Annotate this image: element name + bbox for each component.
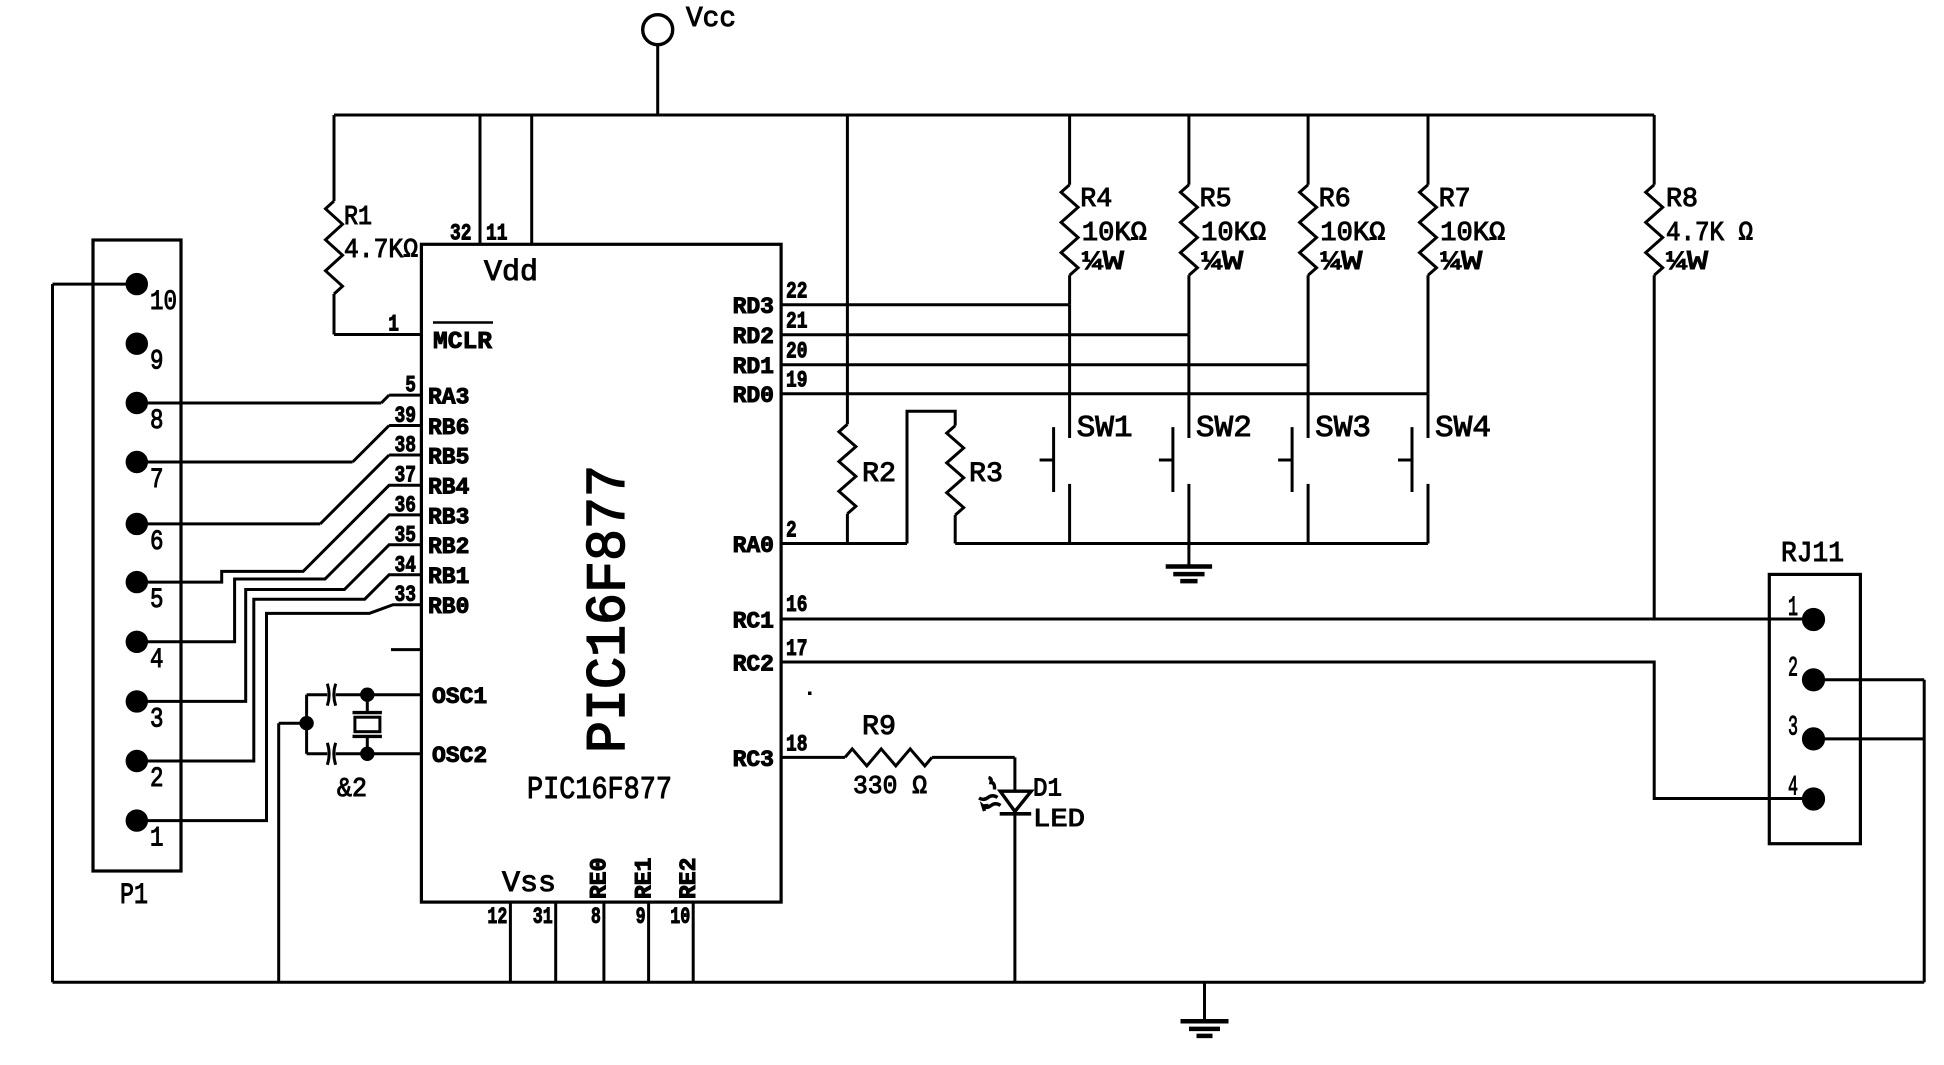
wire Vss pin 12 to ground rail xyxy=(509,902,512,982)
label R9 value 330 Ohm xyxy=(853,771,927,801)
svg-text:MCLR: MCLR xyxy=(433,329,493,356)
label PIC16F877 horizontal xyxy=(527,773,672,808)
label SW2 xyxy=(1196,411,1252,446)
wire RD3 net xyxy=(781,303,1070,306)
svg-text:R5: R5 xyxy=(1200,185,1232,215)
pin name RB4 xyxy=(428,474,470,500)
connector P1 pin 3 xyxy=(127,691,147,711)
pin number 22 xyxy=(786,279,808,305)
pin number 20 xyxy=(786,339,808,365)
pin name RE2 vertical xyxy=(676,858,702,899)
svg-text:Vss: Vss xyxy=(502,867,556,901)
switch SW4 contact bar xyxy=(1398,427,1412,492)
pin name RD3 xyxy=(733,294,774,320)
switch SW1 contact bar xyxy=(1040,427,1054,492)
svg-text:&2: &2 xyxy=(337,775,367,805)
svg-text:R1: R1 xyxy=(344,203,372,233)
connector P1 pin 6 xyxy=(127,514,147,534)
pin number P1 5 xyxy=(150,585,164,616)
label R9 xyxy=(862,712,896,743)
pin name RC3 xyxy=(733,747,774,773)
resistor R1 xyxy=(326,115,343,335)
wire RE0 pin 8 to ground rail xyxy=(602,902,605,982)
svg-text:20: 20 xyxy=(786,339,808,365)
connector P1 pin 2 xyxy=(127,751,147,771)
label R4 xyxy=(1080,185,1112,215)
svg-text:RC3: RC3 xyxy=(733,747,774,773)
stray dot xyxy=(808,692,812,696)
svg-text:Vcc: Vcc xyxy=(686,2,736,35)
label R5 xyxy=(1200,185,1232,215)
svg-text:¼W: ¼W xyxy=(1440,248,1483,278)
svg-text:OSC1: OSC1 xyxy=(432,684,487,710)
svg-text:2: 2 xyxy=(786,518,797,544)
wire RJ11 pin 2 to ground xyxy=(1823,680,1924,983)
label MCLR with overbar xyxy=(433,323,493,357)
label R3 xyxy=(969,459,1003,490)
pin number P1 4 xyxy=(150,645,164,676)
svg-text:18: 18 xyxy=(786,731,808,757)
power symbol Vcc xyxy=(643,15,673,115)
svg-text:¼W: ¼W xyxy=(1666,248,1709,278)
label P1 xyxy=(120,879,148,913)
connector P1 pin 8 xyxy=(127,393,147,413)
wire RA0 net left segment xyxy=(781,542,907,545)
pin name RD2 xyxy=(733,324,774,350)
wire MCLR net xyxy=(334,333,421,336)
connector P1 pin 5 xyxy=(127,572,147,592)
svg-text:SW4: SW4 xyxy=(1435,411,1491,446)
connector P1 pin 10 xyxy=(127,274,147,294)
svg-text:¼W: ¼W xyxy=(1201,248,1244,278)
svg-text:3: 3 xyxy=(150,704,164,735)
svg-text:PIC16F877: PIC16F877 xyxy=(527,773,672,808)
wire Vdd pin 11 xyxy=(530,115,533,244)
connector RJ11 pin 1 xyxy=(1803,609,1824,630)
svg-text:RD3: RD3 xyxy=(733,294,774,320)
pin name RE1 vertical xyxy=(631,858,657,899)
pin name RE0 vertical xyxy=(587,858,613,899)
pin number P1 1 xyxy=(150,824,164,855)
svg-text:RB5: RB5 xyxy=(428,444,469,470)
pin number RJ11 3 xyxy=(1788,713,1798,744)
capacitor C2 xyxy=(307,743,422,765)
connector RJ11 body xyxy=(1769,574,1860,843)
wire RJ11 pin 3 xyxy=(1823,737,1924,740)
svg-text:RE1: RE1 xyxy=(631,858,657,899)
label R7 xyxy=(1439,185,1471,215)
svg-text:RE2: RE2 xyxy=(676,858,702,899)
resistor R7 xyxy=(1420,115,1437,394)
resistor R2 xyxy=(839,115,856,544)
pin number 9 xyxy=(636,904,646,930)
label SW1 xyxy=(1077,411,1133,446)
pin name RB2 xyxy=(428,534,469,560)
svg-text:D1: D1 xyxy=(1033,774,1062,804)
pin name RB3 xyxy=(428,504,469,530)
pin number P1 3 xyxy=(150,704,164,735)
svg-text:22: 22 xyxy=(786,279,808,305)
resistor R5 xyxy=(1180,115,1197,335)
label LED xyxy=(1033,804,1085,834)
svg-text:7: 7 xyxy=(150,465,164,496)
pin name RB1 xyxy=(428,564,469,590)
pin number P1 10 xyxy=(150,287,177,318)
wire Vdd pin 32 xyxy=(479,115,482,244)
svg-text:10KΩ: 10KΩ xyxy=(1201,219,1266,249)
label SW4 xyxy=(1435,411,1491,446)
svg-text:1: 1 xyxy=(150,824,164,855)
label Vss xyxy=(502,867,556,901)
svg-text:RB2: RB2 xyxy=(428,534,469,560)
svg-text:RB1: RB1 xyxy=(428,564,469,590)
crystal Y1 xyxy=(353,695,382,754)
pin stub RB0 + wire from P1 pin 1 xyxy=(147,605,421,821)
svg-text:P1: P1 xyxy=(120,879,148,913)
connector P1 pin 4 xyxy=(127,632,147,652)
svg-text:RC2: RC2 xyxy=(733,651,774,677)
svg-text:R9: R9 xyxy=(862,712,896,743)
svg-text:2: 2 xyxy=(1788,653,1798,684)
pin number 33 xyxy=(395,582,417,608)
pin number 17 xyxy=(786,636,808,662)
svg-text:R4: R4 xyxy=(1080,185,1112,215)
svg-text:¼W: ¼W xyxy=(1082,248,1125,278)
pin stub RB2 + wire from P1 pin 3 xyxy=(147,545,421,702)
svg-text:4: 4 xyxy=(150,645,164,676)
svg-text:8: 8 xyxy=(150,406,164,437)
pin number 2 xyxy=(786,518,797,544)
pin number P1 9 xyxy=(150,347,164,378)
label SW3 xyxy=(1315,411,1371,446)
svg-text:4.7KΩ: 4.7KΩ xyxy=(344,236,418,266)
pin number 5 xyxy=(405,373,416,399)
pin stub RB3 + wire from P1 pin 4 xyxy=(147,515,421,642)
pin number 1 (MCLR) xyxy=(388,312,399,338)
junction dot osc xyxy=(299,716,313,730)
svg-text:R3: R3 xyxy=(969,459,1003,490)
svg-text:RJ11: RJ11 xyxy=(1781,537,1844,570)
connector P1 body xyxy=(93,240,181,871)
pin number 10 xyxy=(670,904,690,930)
svg-text:12: 12 xyxy=(487,904,507,930)
switch SW2 contact bar xyxy=(1159,427,1173,492)
connector RJ11 pin 3 xyxy=(1803,728,1824,749)
pin stub RA3 + wire from P1 pin 8 xyxy=(147,395,421,403)
svg-text:4.7K Ω: 4.7K Ω xyxy=(1666,219,1753,249)
pin name RB0 xyxy=(428,594,469,620)
svg-text:RE0: RE0 xyxy=(587,858,613,899)
svg-text:RB6: RB6 xyxy=(428,415,469,441)
label RJ11 xyxy=(1781,537,1844,570)
resistor R6 xyxy=(1300,115,1317,365)
label PIC16F877 vertical xyxy=(577,465,641,753)
resistor R4 xyxy=(1061,115,1078,305)
pin name RA0 xyxy=(733,533,774,559)
svg-text:RD0: RD0 xyxy=(733,383,774,409)
svg-text:R7: R7 xyxy=(1439,185,1471,215)
unconnected pin stub xyxy=(391,648,421,651)
label Vcc xyxy=(686,2,736,35)
pin number P1 6 xyxy=(150,527,164,558)
wire RD1 net xyxy=(781,363,1308,366)
pin number 37 xyxy=(395,462,417,488)
label R2 xyxy=(862,459,896,490)
resistor R3 with hook to RA0 net xyxy=(907,411,964,543)
wire RC2 net to RJ11 pin 4 xyxy=(781,662,1805,799)
svg-text:11: 11 xyxy=(486,221,508,247)
svg-text:2: 2 xyxy=(150,764,164,795)
wire Vcc top rail xyxy=(334,114,1654,117)
svg-text:SW1: SW1 xyxy=(1077,411,1133,446)
svg-text:RB4: RB4 xyxy=(428,474,470,500)
label R1 xyxy=(344,203,372,233)
label D1 xyxy=(1033,774,1062,804)
capacitor C1 xyxy=(307,684,422,706)
svg-text:SW3: SW3 xyxy=(1315,411,1371,446)
pin name RB5 xyxy=(428,444,469,470)
switch SW1 wiring xyxy=(1068,305,1071,544)
junction dot OSC2 node xyxy=(360,747,374,761)
svg-text:¼W: ¼W xyxy=(1320,248,1363,278)
pin number 12 xyxy=(487,904,507,930)
wire RA0 net right segment xyxy=(955,542,1428,545)
wire osc bracket xyxy=(305,695,308,754)
svg-text:RC1: RC1 xyxy=(733,608,774,634)
pin stub RB1 + wire from P1 pin 2 xyxy=(147,575,421,761)
pin number 31 xyxy=(533,904,553,930)
svg-text:RB3: RB3 xyxy=(428,504,469,530)
wire RE1 pin 9 to ground rail xyxy=(647,902,650,982)
svg-text:32: 32 xyxy=(450,221,472,247)
pin name RA3 xyxy=(428,385,469,411)
pin number P1 8 xyxy=(150,406,164,437)
pin number RJ11 4 xyxy=(1788,773,1798,804)
pin name RD0 xyxy=(733,383,774,409)
pin stub RB5 + wire from P1 pin 6 xyxy=(147,455,421,524)
pin number RJ11 2 xyxy=(1788,653,1798,684)
svg-text:RD2: RD2 xyxy=(733,324,774,350)
svg-text:10KΩ: 10KΩ xyxy=(1440,219,1505,249)
svg-text:10: 10 xyxy=(150,287,177,318)
svg-text:21: 21 xyxy=(786,309,808,335)
svg-text:LED: LED xyxy=(1033,804,1085,834)
wire RD0 net xyxy=(781,392,1428,395)
pin name RB6 xyxy=(428,415,469,441)
pin name OSC2 xyxy=(432,743,487,769)
svg-text:330 Ω: 330 Ω xyxy=(853,771,927,801)
svg-text:RA3: RA3 xyxy=(428,385,469,411)
svg-text:R8: R8 xyxy=(1666,185,1698,215)
pin number P1 7 xyxy=(150,465,164,496)
pin name RC1 xyxy=(733,608,774,634)
label R6 xyxy=(1319,185,1351,215)
pin stub RB6 + wire from P1 pin 7 xyxy=(147,426,421,463)
svg-text:R2: R2 xyxy=(862,459,896,490)
resistor R8 xyxy=(1646,115,1663,619)
label R6 value 10KOhm xyxy=(1320,219,1385,249)
wire RC1 net to RJ11 pin 1 xyxy=(781,618,1805,621)
label R6 value quarter watt xyxy=(1320,248,1363,278)
label Vdd xyxy=(484,256,538,290)
pin number 38 xyxy=(395,433,417,459)
pin number 21 xyxy=(786,309,808,335)
pin number 39 xyxy=(395,403,417,429)
pin number 35 xyxy=(395,522,417,548)
label R5 value 10KOhm xyxy=(1201,219,1266,249)
svg-text:PIC16F877: PIC16F877 xyxy=(577,465,641,753)
wire RD2 net xyxy=(781,333,1189,336)
label R7 value quarter watt xyxy=(1440,248,1483,278)
ground symbol bottom xyxy=(1181,982,1229,1036)
svg-text:3: 3 xyxy=(1788,713,1798,744)
ground symbol at SW2 column xyxy=(1166,544,1212,582)
connector RJ11 pin 4 xyxy=(1803,788,1824,809)
svg-text:SW2: SW2 xyxy=(1196,411,1252,446)
label R1 value 4.7KOhm xyxy=(344,236,418,266)
LED D1 xyxy=(1000,791,1031,814)
pin number 11 xyxy=(486,221,508,247)
label R4 value quarter watt xyxy=(1082,248,1125,278)
svg-text:8: 8 xyxy=(591,904,601,930)
switch SW4 wiring xyxy=(1427,394,1430,544)
svg-text:RD1: RD1 xyxy=(733,354,774,380)
pin number 36 xyxy=(395,492,417,518)
junction dot OSC1 node xyxy=(360,688,374,702)
label R8 xyxy=(1666,185,1698,215)
switch SW3 wiring xyxy=(1307,365,1310,544)
pin number 16 xyxy=(786,592,808,618)
connector P1 pin 7 xyxy=(127,452,147,472)
connector P1 pin 9 xyxy=(127,334,147,354)
resistor R9 xyxy=(781,749,1015,766)
svg-text:9: 9 xyxy=(150,347,164,378)
pin name RC2 xyxy=(733,651,774,677)
svg-text:10KΩ: 10KΩ xyxy=(1320,219,1385,249)
svg-text:10: 10 xyxy=(670,904,690,930)
pin number P1 2 xyxy=(150,764,164,795)
svg-text:10KΩ: 10KΩ xyxy=(1082,219,1147,249)
svg-text:1: 1 xyxy=(388,312,399,338)
pin number 18 xyxy=(786,731,808,757)
wire RC3 to LED anode xyxy=(1013,757,1016,791)
pin number RJ11 1 xyxy=(1788,593,1798,624)
svg-text:5: 5 xyxy=(150,585,164,616)
connector RJ11 pin 2 xyxy=(1803,669,1824,690)
label crystal &2 xyxy=(337,775,367,805)
pin number 34 xyxy=(395,552,417,578)
svg-text:31: 31 xyxy=(533,904,553,930)
pin number 32 xyxy=(450,221,472,247)
label R5 value quarter watt xyxy=(1201,248,1244,278)
wire RE2 pin 10 to ground rail xyxy=(692,902,695,982)
label R4 value 10KOhm xyxy=(1082,219,1147,249)
svg-text:19: 19 xyxy=(786,368,808,394)
switch SW3 contact bar xyxy=(1278,427,1292,492)
wire ground bottom rail xyxy=(53,981,1925,984)
wire LED cathode to ground rail xyxy=(1013,814,1016,983)
svg-text:1: 1 xyxy=(1788,593,1798,624)
wire osc ground riser xyxy=(279,723,307,982)
pin name OSC1 xyxy=(432,684,487,710)
label R8 value quarter watt xyxy=(1666,248,1709,278)
svg-text:6: 6 xyxy=(150,527,164,558)
svg-text:4: 4 xyxy=(1788,773,1798,804)
wire P1 pin 10 to ground rail xyxy=(53,284,127,982)
wire Vss pin 31 to ground rail xyxy=(554,902,557,982)
LED D1 photon arrows xyxy=(979,778,1001,812)
svg-text:R6: R6 xyxy=(1319,185,1351,215)
IC U1 PIC16F877 body xyxy=(421,244,781,902)
switch SW2 wiring xyxy=(1187,335,1190,544)
svg-text:RA0: RA0 xyxy=(733,533,774,559)
svg-text:Vdd: Vdd xyxy=(484,256,538,290)
svg-text:17: 17 xyxy=(786,636,808,662)
label R7 value 10KOhm xyxy=(1440,219,1505,249)
pin stub RB4 + wire from P1 pin 5 xyxy=(147,485,421,582)
svg-text:OSC2: OSC2 xyxy=(432,743,487,769)
svg-text:RB0: RB0 xyxy=(428,594,469,620)
svg-text:9: 9 xyxy=(636,904,646,930)
label R8 value 4.7K Ohm xyxy=(1666,219,1753,249)
pin number 8 xyxy=(591,904,601,930)
connector P1 pin 1 xyxy=(127,810,147,830)
pin number 19 xyxy=(786,368,808,394)
svg-text:16: 16 xyxy=(786,592,808,618)
pin name RD1 xyxy=(733,354,774,380)
